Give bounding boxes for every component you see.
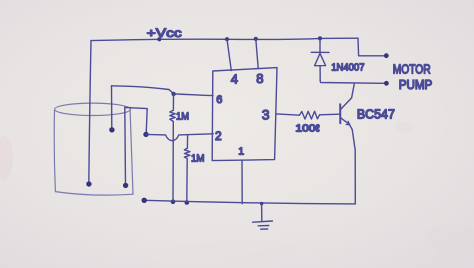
node bottom rail left end xyxy=(142,198,147,203)
junction R2 bottom xyxy=(185,200,190,205)
wire pin 2 (with hop over R1) xyxy=(146,134,213,141)
op-amp/timer IC U1 body xyxy=(212,68,277,161)
wire R3 to transistor base xyxy=(320,113,340,116)
node pin2 junction dot xyxy=(143,132,148,137)
svg-text:6: 6 xyxy=(216,94,222,106)
wire ground/bottom rail xyxy=(144,200,355,204)
water tank xyxy=(54,103,133,195)
svg-text:1M: 1M xyxy=(176,112,189,123)
node motor terminal 2 xyxy=(384,81,389,86)
svg-text:1N4007: 1N4007 xyxy=(331,63,365,74)
junction pin8/rail xyxy=(254,37,258,41)
svg-text:MOTOR: MOTOR xyxy=(393,62,431,76)
svg-text:BC547: BC547 xyxy=(357,107,395,121)
svg-text:4: 4 xyxy=(231,72,238,87)
svg-text:8: 8 xyxy=(256,71,263,86)
probe electrode 2 xyxy=(111,86,113,129)
svg-text:1: 1 xyxy=(238,146,244,158)
resistor R1 1M xyxy=(170,94,175,202)
paper smudges (decorative) xyxy=(0,121,474,260)
wire diode bottom to motor terminal 2 xyxy=(320,81,385,83)
wire pin 8 to rail xyxy=(256,39,258,68)
wire probe2 to pin 6 xyxy=(112,86,214,96)
probe electrode 3 xyxy=(124,107,127,185)
probe electrode 1 (from rail) xyxy=(89,41,91,184)
ground xyxy=(261,204,263,221)
svg-text:2: 2 xyxy=(215,129,222,143)
junction ground stem xyxy=(260,202,263,205)
node +Vcc dot xyxy=(157,37,161,41)
junction pin4/rail xyxy=(225,37,229,41)
diode D1 1N4007 xyxy=(319,38,321,52)
junction diode/rail xyxy=(318,36,322,40)
resistor R3 100 ohm (zigzag) xyxy=(299,111,319,119)
node motor terminal 1 xyxy=(384,53,389,58)
svg-text:+Vcc: +Vcc xyxy=(147,26,182,40)
wire rail to motor terminal 1 xyxy=(358,38,385,56)
wire pin 3 to resistor R3 xyxy=(277,114,300,115)
resistor R2 1M xyxy=(184,135,190,202)
wire pin 4 to rail xyxy=(227,39,231,70)
wire +Vcc top rail xyxy=(91,38,358,40)
junction R1 top xyxy=(171,92,175,96)
junction R1 bottom xyxy=(171,200,176,205)
svg-text:3: 3 xyxy=(262,106,270,122)
wire probe3 top to pin2 junction xyxy=(126,108,148,134)
svg-text:PUMP: PUMP xyxy=(399,78,433,92)
svg-text:1M: 1M xyxy=(191,154,205,165)
transistor Q1 BC547 xyxy=(339,104,341,123)
wire pin 1 to ground rail xyxy=(241,160,243,203)
svg-text:100ℓ: 100ℓ xyxy=(295,123,320,134)
